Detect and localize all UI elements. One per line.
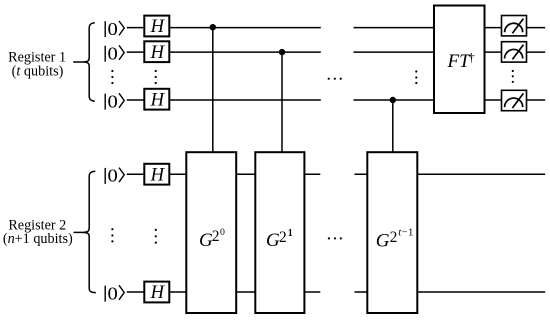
svg-text:†: †	[468, 50, 474, 64]
svg-text:1: 1	[288, 228, 293, 239]
svg-text:G: G	[266, 230, 280, 251]
svg-text:t−1: t−1	[398, 227, 414, 239]
svg-text:H: H	[150, 43, 166, 63]
svg-text:(n+1 qubits): (n+1 qubits)	[3, 231, 73, 247]
svg-text:(t qubits): (t qubits)	[12, 63, 64, 79]
svg-text:H: H	[150, 90, 166, 110]
svg-text:H: H	[150, 283, 166, 303]
svg-text:H: H	[150, 17, 166, 37]
svg-text:G: G	[376, 231, 390, 252]
svg-text:0: 0	[220, 227, 225, 238]
svg-text:2: 2	[279, 229, 287, 246]
svg-text:2: 2	[390, 229, 398, 246]
svg-text:H: H	[150, 165, 166, 185]
svg-text:0: 0	[108, 19, 118, 39]
svg-text:2: 2	[212, 228, 220, 245]
